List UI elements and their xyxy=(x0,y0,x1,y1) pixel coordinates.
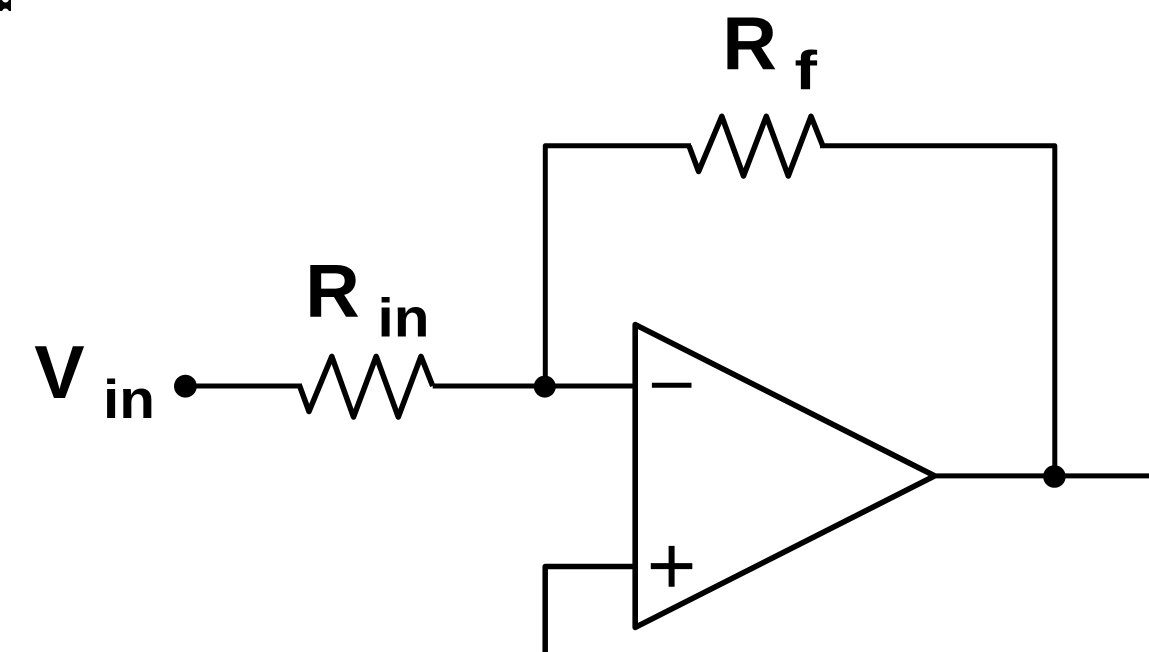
op-amp U1 xyxy=(635,325,935,628)
wire non-inverting input xyxy=(545,567,635,652)
svg-text:R: R xyxy=(305,248,360,332)
wire output xyxy=(935,473,1149,478)
node inverting input junction xyxy=(534,376,556,398)
node output xyxy=(1043,465,1066,488)
svg-text:R: R xyxy=(722,1,777,85)
svg-text:in: in xyxy=(378,287,430,349)
wire Vin to Rin xyxy=(185,384,302,389)
plus sign non-inverting input xyxy=(651,546,693,587)
svg-text:f: f xyxy=(795,39,818,101)
node Vin terminal xyxy=(174,375,197,398)
label Vin xyxy=(34,330,155,430)
wire Rin to op-amp inverting input xyxy=(433,384,635,389)
svg-text:V: V xyxy=(34,330,84,414)
svg-text:in: in xyxy=(103,368,155,430)
wire Rf to output node xyxy=(820,146,1055,477)
resistor Rf xyxy=(689,116,823,176)
label Rin xyxy=(305,248,429,348)
wire feedback left leg xyxy=(545,146,691,386)
minus sign inverting input xyxy=(652,383,692,388)
resistor Rin xyxy=(300,356,433,417)
corner mark xyxy=(0,0,11,15)
label Rf xyxy=(722,1,817,101)
